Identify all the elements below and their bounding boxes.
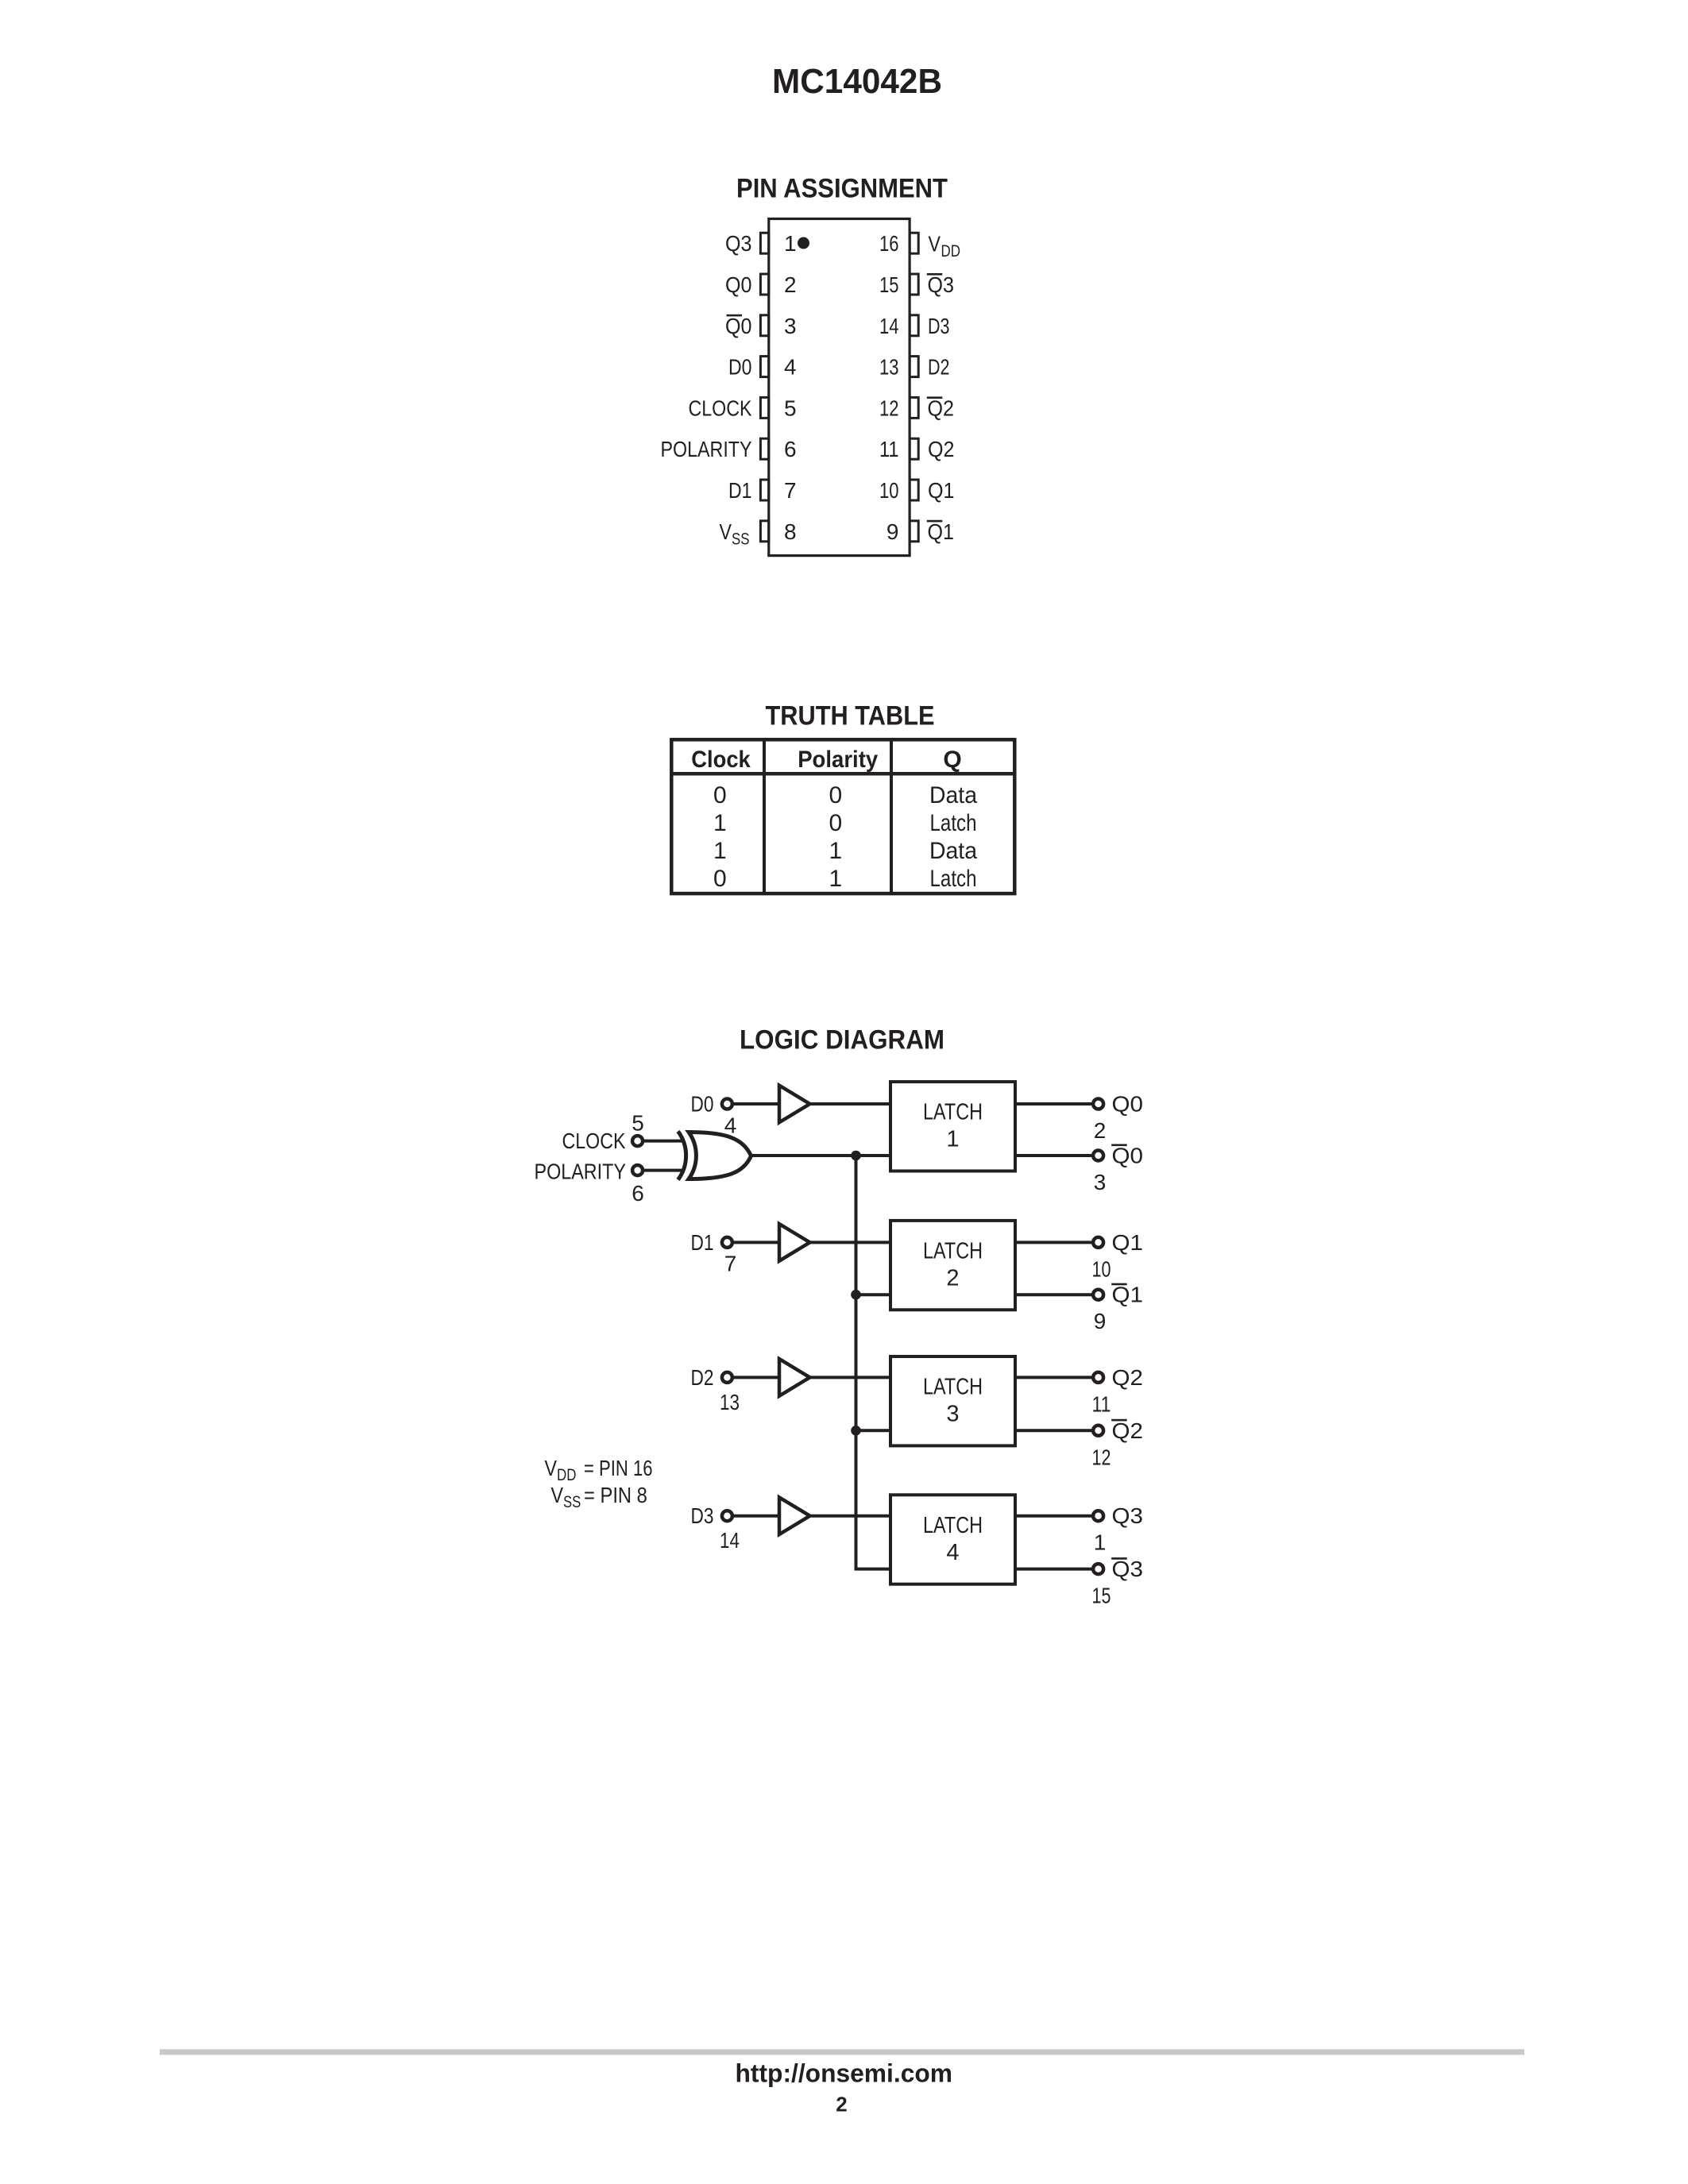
svg-text:SS: SS [732,530,750,548]
svg-text:9: 9 [886,519,899,544]
svg-text:8: 8 [784,519,797,544]
svg-text:CLOCK: CLOCK [562,1129,626,1153]
wire D1 terminal to buffer [734,1241,779,1244]
svg-text:Q3: Q3 [1112,1503,1144,1528]
wire LATCH 4 Q-bar output [1015,1568,1091,1571]
wire POLARITY to XOR input [644,1169,684,1172]
svg-text:= PIN 8: = PIN 8 [584,1483,647,1507]
svg-text:= PIN 16: = PIN 16 [584,1456,653,1480]
IC package U1 16-pin DIP outline [769,219,910,556]
svg-text:6: 6 [784,437,797,461]
svg-text:CLOCK: CLOCK [689,396,752,420]
overbar for Q2 inverted label [1111,1419,1127,1422]
svg-text:Q0: Q0 [725,314,752,338]
svg-text:1: 1 [713,810,727,836]
svg-text:7: 7 [724,1252,737,1276]
svg-text:2: 2 [1094,1118,1107,1143]
pin 7 [760,480,768,500]
svg-text:10: 10 [879,478,899,503]
svg-text:10: 10 [1092,1256,1111,1281]
svg-text:DD: DD [557,1466,576,1484]
wire LATCH 2 Q output [1015,1241,1091,1244]
CLOCK input terminal (pin 5) [632,1136,643,1146]
latch block LATCH 4 [890,1495,1015,1584]
wire buffer to LATCH 3 data input [810,1376,890,1379]
truth table column divider 2 [890,738,893,895]
svg-text:SS: SS [563,1493,581,1511]
svg-text:D2: D2 [928,355,950,380]
pin 15 [910,274,918,295]
svg-text:0: 0 [829,810,842,836]
pin 12 [910,397,918,418]
pin 6 [760,438,768,459]
svg-text:LATCH: LATCH [923,1238,983,1264]
wire LATCH 1 Q-bar output [1015,1154,1091,1157]
wire LATCH 3 Q-bar output [1015,1429,1091,1432]
truth table outer border [671,739,1014,893]
clock distribution net vertical wire [855,1156,858,1569]
overbar for Q3 inverted label [1111,1557,1127,1560]
svg-text:Data: Data [929,838,977,864]
svg-text:0: 0 [713,782,727,808]
svg-text:LATCH: LATCH [923,1513,983,1538]
overbar for pin 9 label [927,520,943,523]
buffer for D1 [779,1224,810,1261]
svg-text:Q1: Q1 [1112,1283,1144,1307]
output terminal Q1 [1093,1237,1103,1248]
svg-text:1: 1 [829,866,842,892]
svg-text:Latch: Latch [930,866,977,892]
svg-text:1: 1 [784,231,797,256]
svg-text:Q1: Q1 [928,519,955,544]
svg-text:MC14042B: MC14042B [772,62,942,101]
footer rule [160,2049,1524,2055]
buffer for D3 [779,1497,810,1534]
svg-text:V: V [545,1456,558,1480]
pin 2 [760,274,768,295]
input terminal D3 [722,1511,732,1521]
svg-text:1: 1 [829,838,842,864]
svg-text:LATCH: LATCH [923,1375,983,1400]
svg-text:DD: DD [941,242,961,260]
svg-text:Q2: Q2 [928,437,955,461]
wire clock net elbow to LATCH 4 [855,1568,890,1571]
svg-text:1: 1 [1094,1530,1107,1555]
svg-text:Data: Data [929,782,977,808]
wire clock net to LATCH 2 [856,1293,890,1296]
overbar for Q0 inverted label [1111,1144,1127,1147]
svg-text:Q1: Q1 [1112,1230,1144,1255]
input terminal D2 [722,1372,732,1383]
wire buffer to LATCH 2 data input [810,1241,890,1244]
svg-text:5: 5 [784,396,797,420]
svg-text:Polarity: Polarity [798,747,878,773]
XOR gate U1 input-side leading arc [678,1132,686,1180]
junction dot clock net at LATCH 2 [851,1290,861,1300]
svg-text:13: 13 [879,355,899,380]
svg-text:2: 2 [784,272,797,297]
svg-text:9: 9 [1094,1309,1107,1333]
svg-text:13: 13 [720,1390,740,1414]
svg-text:Clock: Clock [691,747,751,773]
svg-text:16: 16 [879,231,899,256]
junction dot clock net at LATCH 3 [851,1426,861,1436]
wire LATCH 3 Q output [1015,1376,1091,1379]
pin 4 [760,357,768,377]
wire D0 terminal to buffer [734,1102,779,1106]
svg-text:Q2: Q2 [1112,1365,1144,1390]
wire LATCH 2 Q-bar output [1015,1293,1091,1296]
wire buffer to LATCH 1 data input [810,1102,890,1106]
input terminal D0 [722,1099,732,1109]
svg-text:PIN ASSIGNMENT: PIN ASSIGNMENT [736,174,948,204]
wire XOR output to LATCH 1 clock input [751,1154,890,1157]
svg-text:Q0: Q0 [1112,1092,1144,1117]
svg-text:Q3: Q3 [725,231,752,256]
pin 9 [910,521,918,542]
POLARITY input terminal (pin 6) [632,1165,643,1175]
wire buffer to LATCH 4 data input [810,1515,890,1518]
svg-text:5: 5 [632,1111,644,1136]
svg-text:3: 3 [1094,1170,1107,1194]
latch block LATCH 2 [890,1221,1015,1310]
pin 5 [760,397,768,418]
pin 13 [910,357,918,377]
pin 3 [760,315,768,336]
svg-text:14: 14 [720,1528,740,1553]
svg-text:http://onsemi.com: http://onsemi.com [736,2059,953,2088]
svg-text:Q2: Q2 [1112,1418,1144,1443]
buffer for D2 [779,1359,810,1396]
svg-text:11: 11 [1092,1391,1111,1416]
svg-text:3: 3 [946,1402,959,1427]
junction dot clock net at LATCH 1 [851,1151,861,1161]
output terminal Q1 inverted [1093,1290,1103,1300]
svg-text:Q: Q [943,747,961,773]
overbar for pin 12 label [927,396,943,399]
svg-text:4: 4 [946,1540,959,1565]
output terminal Q0 inverted [1093,1151,1103,1161]
svg-text:15: 15 [879,272,899,297]
svg-text:Q0: Q0 [1112,1144,1144,1168]
pin 14 [910,315,918,336]
svg-text:POLARITY: POLARITY [661,437,752,461]
truth table header row divider [670,772,1016,776]
svg-text:Q3: Q3 [928,272,955,297]
output terminal Q2 inverted [1093,1426,1103,1436]
svg-text:14: 14 [879,314,899,338]
latch block LATCH 3 [890,1356,1015,1445]
truth table column divider 1 [763,738,766,895]
svg-text:Q3: Q3 [1112,1557,1144,1581]
svg-text:12: 12 [879,396,899,420]
svg-text:D0: D0 [691,1092,714,1117]
output terminal Q2 [1093,1372,1103,1383]
svg-text:D3: D3 [691,1503,714,1528]
output terminal Q3 [1093,1511,1103,1521]
svg-text:4: 4 [724,1113,737,1137]
svg-text:D2: D2 [691,1365,714,1390]
svg-text:Latch: Latch [930,810,977,836]
svg-text:3: 3 [784,314,797,338]
svg-text:D0: D0 [728,355,752,380]
svg-text:Q0: Q0 [725,272,752,297]
svg-text:7: 7 [784,478,797,503]
svg-text:D1: D1 [728,478,752,503]
svg-text:POLARITY: POLARITY [535,1160,627,1184]
svg-text:0: 0 [829,782,842,808]
pin 10 [910,480,918,500]
buffer for D0 [779,1086,810,1123]
svg-text:LATCH: LATCH [923,1100,983,1125]
svg-text:6: 6 [632,1181,644,1206]
svg-text:V: V [551,1483,564,1507]
svg-text:2: 2 [946,1266,959,1291]
wire LATCH 1 Q output [1015,1102,1091,1106]
overbar for Q1 inverted label [1111,1283,1127,1286]
wire LATCH 4 Q output [1015,1515,1091,1518]
svg-text:Q2: Q2 [928,396,955,420]
svg-text:15: 15 [1092,1584,1111,1608]
svg-text:Q1: Q1 [928,478,955,503]
pin 11 [910,438,918,459]
latch block LATCH 1 [890,1082,1015,1171]
pin 1 orientation dot [798,237,809,249]
svg-text:V: V [720,519,732,544]
overbar for pin 3 label [727,314,743,317]
pin 8 [760,521,768,542]
svg-text:0: 0 [713,866,727,892]
svg-text:4: 4 [784,355,797,380]
wire D3 terminal to buffer [734,1515,779,1518]
svg-text:TRUTH TABLE: TRUTH TABLE [766,701,935,731]
wire D2 terminal to buffer [734,1376,779,1379]
output terminal Q0 [1093,1099,1103,1109]
svg-text:11: 11 [879,437,899,461]
svg-text:12: 12 [1092,1445,1111,1469]
svg-text:1: 1 [946,1127,959,1152]
svg-text:LOGIC DIAGRAM: LOGIC DIAGRAM [740,1025,944,1055]
wire CLOCK to XOR input [644,1140,684,1143]
input terminal D1 [722,1237,732,1248]
XOR gate U1 body [689,1133,751,1179]
overbar for pin 15 label [927,273,943,276]
wire clock net to LATCH 3 [856,1429,890,1432]
svg-text:D3: D3 [928,314,950,338]
output terminal Q3 inverted [1093,1564,1103,1574]
svg-text:D1: D1 [691,1230,714,1255]
svg-text:V: V [929,232,941,257]
svg-text:2: 2 [836,2092,847,2116]
svg-text:1: 1 [713,838,727,864]
pin 16 [910,233,918,253]
pin 1 [760,233,768,253]
